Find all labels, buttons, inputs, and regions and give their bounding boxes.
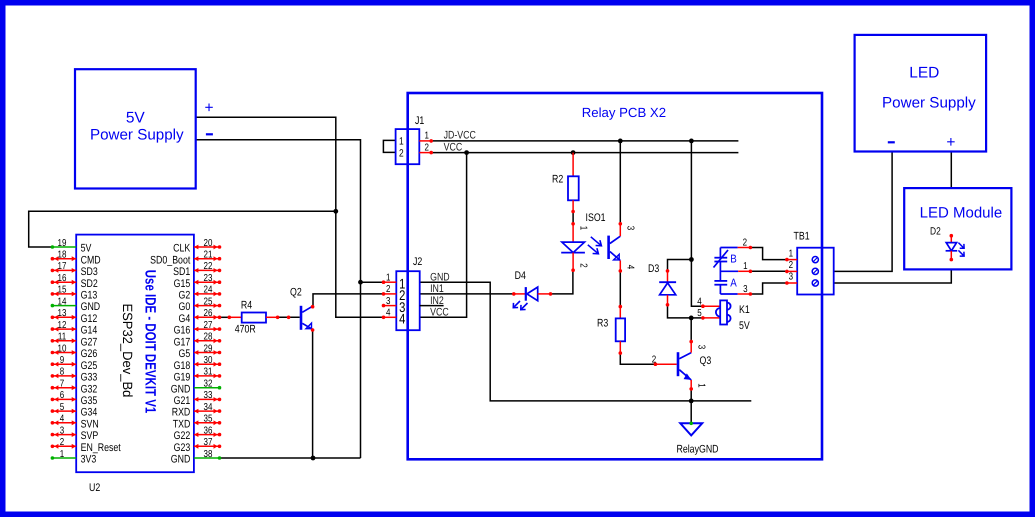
label Relay PCB X2	[582, 105, 666, 120]
Q3 emitter pin	[690, 380, 692, 389]
label JD-VCC	[444, 130, 476, 142]
junction K1 feed at JD-VCC rail	[689, 139, 694, 144]
J2 pin 1 GND	[384, 281, 397, 283]
ESP32 pin 31 G19	[194, 375, 220, 377]
svg-text:G14: G14	[81, 325, 98, 337]
svg-text:17: 17	[58, 261, 67, 272]
svg-text:G12: G12	[81, 313, 98, 325]
TB1 pin 1	[787, 259, 797, 261]
wire JD-VCC rail	[431, 140, 738, 142]
relay contact A	[714, 280, 727, 282]
label VCC net	[444, 141, 463, 153]
relay contact B	[719, 248, 721, 258]
ESP32 pin 1 3V3	[52, 457, 76, 459]
ESP32 pin 8 G33	[52, 375, 76, 377]
ESP32 pin 28 G17	[194, 340, 220, 342]
svg-text:21: 21	[204, 250, 213, 261]
svg-text:CLK: CLK	[173, 243, 191, 255]
svg-text:D3: D3	[648, 263, 659, 275]
svg-text:1: 1	[743, 261, 748, 272]
svg-text:1: 1	[695, 383, 706, 388]
label - of LED supply	[888, 141, 895, 143]
wire VCC rail	[431, 152, 738, 154]
wire TB1 pin2 to LED supply minus	[834, 152, 892, 272]
svg-text:IN1: IN1	[430, 283, 444, 295]
svg-text:31: 31	[204, 367, 213, 378]
svg-text:Q3: Q3	[700, 355, 712, 367]
ESP32 pin 25 G0	[194, 305, 220, 307]
ISO1 pin4 emitter	[619, 261, 621, 271]
ESP32 pin 19 5V	[52, 246, 76, 248]
label ESP32_Dev_Bd	[120, 303, 135, 397]
svg-text:RelayGND: RelayGND	[676, 444, 718, 456]
svg-text:3: 3	[743, 284, 748, 295]
svg-text:G25: G25	[81, 360, 98, 372]
svg-text:22: 22	[204, 261, 213, 272]
ESP32 pin 22 SD1	[194, 269, 220, 271]
ESP32 pin 3 SVP	[52, 434, 76, 436]
relay coil K1	[701, 304, 705, 308]
svg-text:18: 18	[58, 250, 67, 261]
wire D3 bottom to K1 pin5 node	[668, 305, 692, 318]
svg-text:Relay PCB X2: Relay PCB X2	[582, 105, 666, 120]
svg-text:D2: D2	[930, 226, 941, 238]
relay PCB X2 module box	[408, 93, 822, 459]
svg-text:16: 16	[58, 273, 67, 284]
svg-text:GND: GND	[171, 454, 191, 466]
TB1 screw 2	[812, 268, 818, 274]
resistor R4	[228, 316, 232, 320]
ESP32 pin 24 G2	[194, 293, 220, 295]
svg-text:SD0_Boot: SD0_Boot	[150, 254, 190, 266]
diode D3 flyback	[666, 269, 670, 273]
ESP32 pin 27 G16	[194, 328, 220, 330]
svg-text:EN_Reset: EN_Reset	[81, 442, 121, 454]
ESP32 pin 14 GND	[52, 305, 76, 307]
TB1 screw 3	[812, 280, 818, 286]
J1 pin 1	[419, 140, 431, 142]
relay contact common stem	[719, 262, 721, 281]
svg-text:G34: G34	[81, 407, 98, 419]
svg-text:28: 28	[204, 332, 213, 343]
wire D4 to ISO1 LED cathode	[551, 270, 573, 294]
wire LED supply plus down to D2 anode	[950, 152, 952, 189]
ESP32 pin 20 CLK	[194, 246, 220, 248]
svg-text:4: 4	[399, 311, 405, 327]
junction ISO1 collector at JD-VCC rail	[618, 139, 623, 144]
svg-text:3: 3	[789, 272, 794, 283]
ESP32 pin 36 G22	[194, 434, 220, 436]
wire GND bottom run to ESP32 pin38	[220, 457, 361, 459]
J1 pin 2	[419, 152, 431, 154]
ESP32 pin 37 G23	[194, 445, 220, 447]
ESP32 pin 7 G32	[52, 387, 76, 389]
label 5V coil rating	[739, 320, 750, 332]
svg-text:34: 34	[204, 402, 213, 413]
LED D2	[930, 226, 941, 238]
svg-text:GND: GND	[430, 272, 450, 284]
svg-text:TXD: TXD	[173, 418, 191, 430]
svg-text:SVP: SVP	[81, 430, 99, 442]
svg-text:5: 5	[60, 402, 65, 413]
svg-text:38: 38	[204, 449, 213, 460]
svg-text:A: A	[730, 277, 737, 289]
J2 pin 4 VCC	[384, 316, 397, 318]
svg-text:1: 1	[789, 248, 794, 259]
svg-text:G35: G35	[81, 395, 98, 407]
ESP32 pin 26 G4	[194, 316, 220, 318]
svg-text:ESP32_Dev_Bd: ESP32_Dev_Bd	[120, 303, 135, 397]
resistor R3	[619, 305, 623, 309]
svg-text:G21: G21	[174, 395, 191, 407]
junction D3 top tap	[689, 257, 694, 262]
LED module box	[904, 188, 1011, 269]
svg-text:5: 5	[697, 308, 702, 319]
svg-text:5V: 5V	[739, 320, 750, 332]
svg-text:1: 1	[386, 272, 391, 283]
svg-text:37: 37	[204, 437, 213, 448]
wire ISO1 emitter to R3	[619, 271, 621, 307]
TB1 pin 2	[787, 270, 797, 272]
svg-text:RXD: RXD	[172, 407, 191, 419]
label 5V	[126, 110, 146, 127]
ESP32 pin 35 TXD	[194, 422, 220, 424]
ISO1 LED triangle	[562, 242, 585, 253]
svg-text:Power Supply: Power Supply	[90, 127, 184, 144]
svg-text:2: 2	[652, 354, 657, 365]
svg-text:SVN: SVN	[81, 418, 99, 430]
wire J2 GND to relay ground rail	[420, 282, 752, 401]
svg-text:G5: G5	[179, 348, 191, 360]
ESP32 pin 12 G14	[52, 328, 76, 330]
svg-text:Q2: Q2	[290, 287, 302, 299]
ISO1 LED pin1	[571, 222, 575, 226]
svg-text:G22: G22	[174, 430, 191, 442]
LED power supply box	[855, 35, 987, 152]
J2 pin 3 IN2	[384, 305, 397, 307]
wire Q2 collector to J2 IN1	[313, 294, 384, 307]
svg-text:2: 2	[743, 237, 748, 248]
optocoupler ISO1	[586, 212, 606, 224]
wire contact B to TB1 pin1	[750, 248, 787, 260]
svg-text:5V: 5V	[126, 110, 146, 127]
svg-text:4: 4	[697, 296, 702, 307]
svg-text:11: 11	[58, 332, 67, 343]
junction 5V+ node	[333, 209, 338, 214]
wire 5V- from supply down to GND run	[196, 140, 361, 458]
svg-text:K1: K1	[739, 304, 750, 316]
wire contact A to TB1 pin3	[750, 283, 787, 294]
ESP32 pin 32 GND	[194, 387, 220, 389]
wire R2 bottom to ISO1 LED anode	[572, 212, 574, 224]
svg-text:3: 3	[386, 296, 391, 307]
ESP32 pin 4 SVN	[52, 422, 76, 424]
svg-text:32: 32	[204, 379, 213, 390]
svg-text:13: 13	[58, 308, 67, 319]
ESP32 pin 11 G27	[52, 340, 76, 342]
svg-text:G19: G19	[174, 372, 191, 384]
label + of 5V supply	[204, 99, 213, 116]
TB1 screw 1	[812, 257, 818, 263]
svg-text:30: 30	[204, 355, 213, 366]
svg-text:D4: D4	[515, 270, 526, 282]
Q3 collector pin	[689, 340, 693, 344]
svg-text:SD2: SD2	[81, 278, 98, 290]
label LED	[909, 64, 939, 81]
svg-text:J2: J2	[413, 256, 422, 268]
svg-text:1: 1	[424, 131, 429, 142]
wire node to K1 pin5	[691, 317, 703, 319]
svg-text:2: 2	[386, 284, 391, 295]
svg-text:SD1: SD1	[173, 266, 190, 278]
ESP32 pin 2 EN_Reset	[52, 445, 76, 447]
svg-text:Use IDE - DOIT DEVKIT V1: Use IDE - DOIT DEVKIT V1	[141, 270, 158, 413]
svg-text:15: 15	[58, 285, 67, 296]
svg-text:14: 14	[58, 296, 67, 307]
svg-text:1: 1	[399, 136, 404, 148]
svg-text:3: 3	[625, 226, 636, 231]
ESP32 pin 33 G21	[194, 398, 220, 400]
wire JD-VCC rail down to ISO1 collector	[619, 141, 621, 224]
label - of 5V supply	[206, 133, 213, 135]
svg-text:G17: G17	[174, 336, 191, 348]
svg-text:26: 26	[204, 308, 213, 319]
wire contact common to TB1 pin2	[750, 270, 787, 272]
svg-text:VCC: VCC	[444, 141, 463, 153]
svg-text:+: +	[946, 134, 955, 151]
junction Q2 emitter at GND run	[311, 456, 316, 461]
ESP32 pin 17 SD3	[52, 269, 76, 271]
ISO1 LED pin2	[572, 253, 574, 271]
svg-text:24: 24	[204, 285, 213, 296]
wire JD-VCC down to K1 pin4	[691, 141, 703, 306]
D4 emission arrows	[514, 301, 520, 307]
svg-text:G32: G32	[81, 383, 98, 395]
ESP32 pin 16 SD2	[52, 281, 76, 283]
ISO1 pin3 collector	[619, 222, 623, 226]
svg-text:Power Supply: Power Supply	[882, 94, 976, 111]
wire VCC rail to J2 VCC pin	[420, 153, 467, 318]
svg-text:JD-VCC: JD-VCC	[444, 130, 476, 142]
5V power supply box	[75, 69, 196, 188]
svg-text:12: 12	[58, 320, 67, 331]
J2 IN2 stub	[420, 305, 444, 307]
resistor R2	[572, 153, 574, 177]
svg-text:G13: G13	[81, 290, 98, 302]
svg-text:G23: G23	[174, 442, 191, 454]
svg-text:4: 4	[60, 414, 65, 425]
ESP32 pin 23 G15	[194, 281, 220, 283]
svg-text:3: 3	[695, 345, 706, 350]
wire J2 IN1 to D4	[420, 293, 514, 295]
svg-text:3: 3	[60, 425, 65, 436]
ESP32 pin 6 G35	[52, 398, 76, 400]
svg-text:GND: GND	[81, 301, 101, 313]
wire D3 top branch	[668, 260, 692, 271]
svg-text:CMD: CMD	[81, 254, 101, 266]
wire ESP32 G4 to R4	[220, 316, 230, 318]
svg-text:G15: G15	[174, 278, 191, 290]
junction relay ground rail	[689, 399, 694, 404]
ISO1 phototransistor	[607, 236, 610, 259]
svg-text:10: 10	[58, 343, 67, 354]
ESP32 pin 21 SD0_Boot	[194, 258, 220, 260]
svg-text:23: 23	[204, 273, 213, 284]
svg-text:B: B	[730, 253, 737, 265]
wire J1 shorting bracket	[383, 140, 395, 152]
svg-text:7: 7	[60, 379, 65, 390]
svg-text:25: 25	[204, 296, 213, 307]
svg-text:VCC: VCC	[430, 307, 449, 319]
ESP32 pin 30 G18	[194, 363, 220, 365]
svg-text:33: 33	[204, 390, 213, 401]
svg-text:G4: G4	[179, 313, 191, 325]
label Power Supply of LED supply	[882, 94, 976, 111]
svg-text:36: 36	[204, 425, 213, 436]
D2 emission arrows	[958, 243, 963, 248]
wire R4 to Q2 base	[278, 316, 300, 318]
J2 pin 2 IN1	[384, 293, 397, 295]
transistor Q3	[654, 362, 658, 366]
junction K1 pin5 / Q3 collector node	[689, 316, 694, 321]
transistor Q2	[287, 316, 291, 320]
svg-text:R3: R3	[597, 318, 608, 330]
ESP32 pin 15 G13	[52, 293, 76, 295]
label + of LED supply	[946, 134, 955, 151]
svg-text:SD3: SD3	[81, 266, 98, 278]
svg-text:35: 35	[204, 414, 213, 425]
ESP32 pin 9 G25	[52, 363, 76, 365]
wire TB1 pin3 to LED module D2 cathode	[834, 269, 952, 283]
svg-text:19: 19	[58, 238, 67, 249]
svg-text:4: 4	[625, 265, 636, 270]
svg-text:G33: G33	[81, 372, 98, 384]
junction J2 VCC at VCC rail	[464, 150, 469, 155]
wire ground rail to RelayGND symbol	[690, 401, 692, 423]
junction GND at J2 pin1	[358, 280, 363, 285]
svg-text:5V: 5V	[81, 243, 92, 255]
ground RelayGND	[680, 423, 702, 435]
svg-text:G16: G16	[174, 325, 191, 337]
wire branch GND to J2 pin1	[361, 281, 384, 283]
ESP32 pin 29 G5	[194, 352, 220, 354]
svg-text:GND: GND	[171, 383, 191, 395]
label Power Supply	[90, 127, 184, 144]
wire Q3 emitter to ground rail	[690, 389, 692, 401]
svg-text:J1: J1	[415, 115, 424, 127]
contact pin 2 wire	[720, 247, 737, 249]
diode D4 (LED indicator)	[512, 292, 516, 296]
svg-text:9: 9	[60, 355, 65, 366]
wire R3 to Q3 base	[620, 353, 655, 364]
label LED Module	[920, 204, 1003, 221]
svg-text:1: 1	[578, 226, 589, 231]
connector J1	[396, 129, 420, 164]
wire Q2 emitter down	[312, 330, 314, 458]
ESP32 pin 5 G34	[52, 410, 76, 412]
svg-text:4: 4	[386, 308, 391, 319]
svg-text:8: 8	[60, 367, 65, 378]
TB1 pin 3	[787, 282, 797, 284]
svg-text:G18: G18	[174, 360, 191, 372]
label Use IDE - DOIT DEVKIT V1	[141, 270, 158, 413]
wire node down to Q3 collector	[690, 318, 692, 342]
ISO1 light arrows	[591, 237, 601, 246]
svg-text:G0: G0	[179, 301, 191, 313]
svg-text:G26: G26	[81, 348, 98, 360]
svg-text:2: 2	[424, 142, 429, 153]
svg-text:LED: LED	[909, 64, 939, 81]
svg-text:U2: U2	[89, 482, 100, 494]
svg-text:ISO1: ISO1	[586, 212, 606, 224]
svg-text:+: +	[204, 99, 213, 116]
svg-text:20: 20	[204, 238, 213, 249]
terminal block TB1	[797, 248, 834, 295]
wire branch 5V+ to ESP32 pin19 5V	[29, 211, 336, 247]
ESP32 pin 18 CMD	[52, 258, 76, 260]
svg-text:R2: R2	[552, 174, 563, 186]
svg-text:TB1: TB1	[794, 231, 810, 243]
svg-text:2: 2	[399, 147, 404, 159]
svg-text:G2: G2	[179, 290, 191, 302]
svg-text:2: 2	[60, 437, 65, 448]
svg-text:1: 1	[60, 449, 65, 460]
svg-text:3V3: 3V3	[81, 454, 97, 466]
contact pin 3 wire	[720, 293, 737, 295]
svg-text:2: 2	[789, 260, 794, 271]
ESP32 devkit box U2	[76, 235, 194, 473]
wire 5V+ from supply to J2 VCC	[196, 117, 384, 317]
svg-text:LED Module: LED Module	[920, 204, 1003, 221]
svg-text:G27: G27	[81, 336, 98, 348]
label U2	[89, 482, 100, 494]
connector J2	[396, 271, 419, 330]
svg-text:27: 27	[204, 320, 213, 331]
ESP32 pin 10 G26	[52, 352, 76, 354]
svg-text:6: 6	[60, 390, 65, 401]
contact pin 1 wire	[720, 270, 738, 272]
ESP32 pin 38 GND	[194, 457, 220, 459]
junction R2 at VCC rail	[571, 150, 576, 155]
svg-text:470R: 470R	[235, 324, 256, 336]
svg-text:29: 29	[204, 343, 213, 354]
svg-text:R4: R4	[241, 300, 252, 312]
ESP32 pin 13 G12	[52, 316, 76, 318]
svg-text:2: 2	[578, 263, 589, 268]
ESP32 pin 34 RXD	[194, 410, 220, 412]
